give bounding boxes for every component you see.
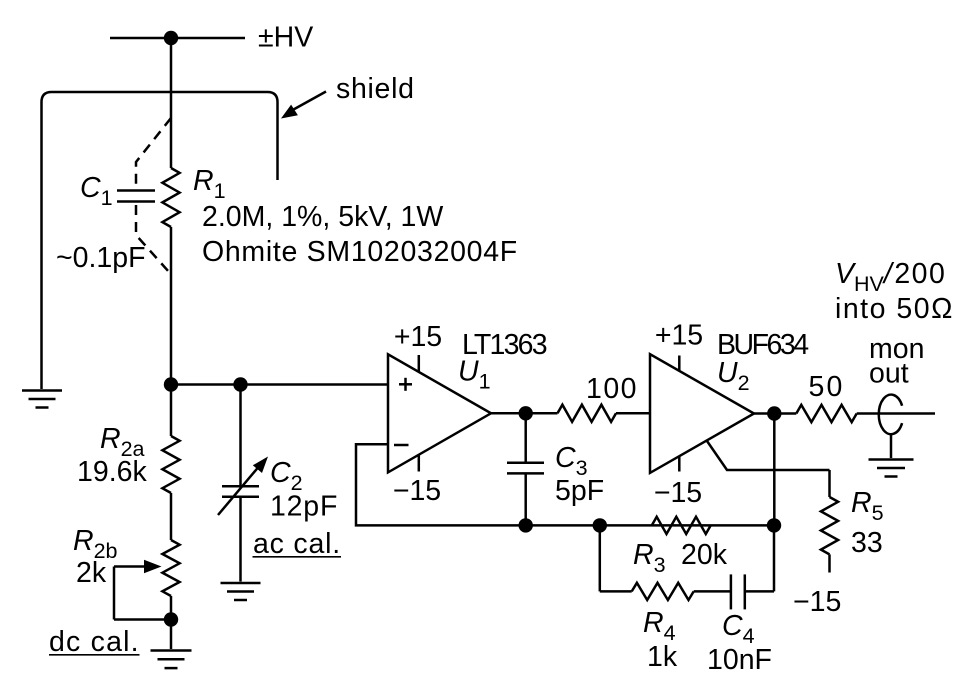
wire shield pointer line — [289, 92, 326, 113]
wire C3 top — [524, 413, 527, 463]
label R4 value — [647, 641, 678, 673]
ground shield ground — [22, 391, 62, 408]
node divider junction — [164, 377, 178, 391]
wire 100 to U2 — [616, 412, 650, 415]
node U2 output junction — [767, 406, 781, 420]
wire C2 bottom — [239, 497, 242, 582]
wire U1 inverting feedback — [356, 444, 526, 525]
ground dc ground — [151, 651, 192, 669]
resistor R2b — [162, 540, 179, 596]
label R3 — [633, 539, 666, 577]
svg-text:10nF: 10nF — [707, 644, 772, 676]
wire node to R2a — [170, 385, 173, 437]
wire dashed C1 top connection — [136, 118, 171, 187]
node HV junction — [164, 31, 178, 45]
resistor 50 — [796, 405, 856, 422]
label C2 — [270, 457, 303, 495]
svg-text:C2: C2 — [270, 457, 303, 495]
label U2 +15 — [655, 320, 703, 352]
label VHV/200 — [835, 258, 946, 296]
node C3 bottom junction — [519, 518, 533, 532]
pin U2 -supply tick — [678, 456, 681, 471]
svg-text:R1: R1 — [193, 165, 226, 203]
pin U1 -supply tick — [418, 455, 421, 472]
label 100 — [586, 373, 638, 405]
wire divider node to opamp — [171, 383, 388, 386]
label R2b value — [76, 557, 107, 589]
resistor 100 — [558, 405, 617, 422]
arrowhead R2b wiper — [144, 560, 162, 573]
wire HV vertical drop — [170, 38, 173, 168]
ground connector ground — [869, 460, 914, 477]
label C1 — [80, 172, 113, 210]
node U1 output junction — [519, 406, 533, 420]
svg-text:out: out — [869, 358, 909, 390]
label 50 — [808, 371, 844, 403]
resistor R1 — [162, 168, 179, 227]
wire U2 BW tap — [707, 441, 830, 470]
resistor R5 — [821, 497, 838, 554]
shield enclosure outline — [42, 92, 278, 389]
pin U2 +supply tick — [678, 356, 681, 372]
label mon — [869, 333, 924, 365]
label ac cal. — [253, 528, 342, 560]
wire dashed C1 bottom connection — [136, 205, 169, 272]
label R5 value — [851, 527, 883, 559]
label U1 -15 — [393, 475, 441, 507]
pin U1 +supply tick — [418, 355, 421, 372]
label R5 — [851, 487, 884, 525]
svg-text:U2: U2 — [717, 357, 750, 395]
node feedback right junction — [767, 518, 781, 532]
label LT1363 — [462, 329, 547, 361]
label C4 value — [707, 644, 772, 676]
svg-text:+15: +15 — [394, 321, 442, 353]
svg-text:±HV: ±HV — [258, 22, 313, 54]
resistor R3 — [652, 517, 711, 534]
svg-text:U1: U1 — [458, 356, 491, 394]
wire R2a to R2b — [170, 493, 173, 540]
label R2a — [100, 423, 145, 461]
label C3 — [555, 442, 588, 480]
svg-text:−15: −15 — [793, 586, 841, 618]
svg-text:33: 33 — [851, 527, 883, 559]
label BUF634 — [717, 329, 809, 361]
label R2b — [73, 525, 118, 563]
wire C2 arrow — [218, 464, 261, 515]
svg-text:2.0M, 1%, 5kV, 1W: 2.0M, 1%, 5kV, 1W — [202, 201, 443, 233]
svg-text:R3: R3 — [633, 539, 666, 577]
label U2 — [717, 357, 750, 395]
wire connector ground stub — [890, 434, 893, 458]
svg-text:shield: shield — [336, 73, 415, 105]
wire C4 to junction — [745, 525, 774, 591]
svg-text:ac cal.: ac cal. — [253, 528, 341, 560]
svg-text:C4: C4 — [722, 610, 755, 648]
node C2 tap junction — [233, 377, 247, 391]
label R1 — [193, 165, 226, 203]
op-amp U1 — [388, 354, 491, 472]
svg-text:VHV/200: VHV/200 — [835, 258, 946, 296]
wire node to ground — [170, 620, 173, 650]
svg-text:100: 100 — [586, 373, 638, 405]
label R3 value — [681, 539, 728, 571]
label R1 part number — [202, 236, 518, 268]
label R5 -15 — [793, 586, 841, 618]
label C4 — [722, 610, 755, 648]
svg-text:Ohmite SM102032004F: Ohmite SM102032004F — [202, 236, 518, 268]
wire R5 to -15 — [828, 554, 831, 572]
svg-text:19.6k: 19.6k — [77, 456, 147, 488]
wire R2b wiper — [114, 567, 171, 620]
svg-text:2k: 2k — [76, 557, 107, 589]
capacitor C4 — [731, 574, 745, 609]
label R4 — [643, 607, 676, 645]
label shield — [336, 73, 415, 105]
svg-text:into 50Ω: into 50Ω — [835, 293, 954, 325]
ground C2 ground — [221, 583, 261, 600]
label U1 +15 — [394, 321, 442, 353]
label ~0.1pF — [56, 242, 146, 274]
svg-text:R5: R5 — [851, 487, 884, 525]
label C3 value — [555, 475, 604, 507]
wire HV input rail — [110, 37, 245, 40]
label ±HV — [258, 22, 313, 54]
node feedback branch junction — [593, 518, 607, 532]
wire 50 to connector — [857, 412, 935, 415]
svg-text:~0.1pF: ~0.1pF — [56, 242, 146, 274]
wire C2 top — [239, 385, 242, 487]
buffer U2 — [650, 354, 754, 473]
connector mon out — [879, 395, 902, 435]
svg-text:R4: R4 — [643, 607, 676, 645]
label into 50ohm — [835, 293, 954, 325]
wire U1 output — [491, 412, 558, 415]
wire U2 output to feedback — [773, 414, 776, 526]
svg-text:+15: +15 — [655, 320, 703, 352]
arrowhead C2 arrow — [253, 457, 268, 474]
label out — [869, 358, 909, 390]
label R1 value — [202, 201, 443, 233]
wire R1 to divider node — [170, 227, 173, 385]
label U2 -15 — [654, 477, 702, 509]
wire R4 to C4 — [694, 590, 731, 593]
arrowhead shield pointer — [281, 105, 298, 119]
wire feedback rail — [526, 524, 774, 527]
svg-text:5pF: 5pF — [555, 475, 604, 507]
wire R4 branch down — [600, 525, 632, 591]
svg-text:20k: 20k — [681, 539, 728, 571]
svg-text:50: 50 — [808, 371, 844, 403]
capacitor C2 — [222, 486, 259, 497]
wire BW to R5 — [828, 470, 831, 497]
svg-text:12pF: 12pF — [270, 491, 338, 523]
wire U2 output — [754, 412, 796, 415]
svg-text:C1: C1 — [80, 172, 113, 210]
svg-text:1k: 1k — [647, 641, 678, 673]
svg-text:−15: −15 — [654, 477, 702, 509]
label R2a value — [77, 456, 147, 488]
capacitor C1 — [117, 191, 155, 202]
label C2 value — [270, 491, 338, 523]
svg-text:dc cal.: dc cal. — [49, 626, 140, 658]
node R2b bottom junction — [164, 612, 178, 626]
capacitor C3 — [507, 463, 544, 474]
resistor R4 — [632, 583, 694, 600]
label U1 — [458, 356, 491, 394]
wire R2b bottom to node — [170, 596, 173, 620]
wire C3 bottom — [524, 473, 527, 525]
resistor R2a — [162, 436, 179, 493]
label dc cal. — [49, 626, 140, 658]
svg-text:−15: −15 — [393, 475, 441, 507]
